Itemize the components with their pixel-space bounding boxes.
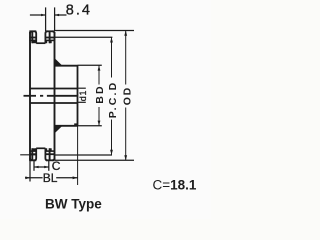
svg-text:8.4: 8.4 <box>66 2 92 18</box>
svg-text:C=18.1: C=18.1 <box>153 178 197 193</box>
left tooth pitch line <box>29 37 37 39</box>
bottom left tooth second line <box>29 150 37 152</box>
svg-text:BD: BD <box>94 84 106 104</box>
PCD dimension line upper segment with arrow <box>111 37 113 77</box>
hub top edge with extension to BD dimension <box>55 65 78 67</box>
bottom right tooth divider <box>49 148 51 160</box>
dimension 8.4 line left segment <box>30 14 46 16</box>
C dimension right extension line <box>48 161 50 171</box>
bottom notch floor between teeth <box>36 147 45 149</box>
left tooth second line <box>29 39 37 41</box>
bore bottom line <box>30 102 78 104</box>
notch floor between teeth (top) <box>36 42 45 44</box>
C dimension left extension line <box>33 161 35 171</box>
bottom pitch line with left protrusion <box>20 154 37 156</box>
hub bottom edge with extension <box>55 125 78 127</box>
tooth lower-band stubs bottom <box>32 148 35 151</box>
svg-text:d1: d1 <box>78 90 88 102</box>
weld fillet top (filled triangle) <box>55 59 61 65</box>
left tooth divider <box>31 31 33 43</box>
left tooth right edge <box>34 31 36 43</box>
plate right edge (tooth right edge, rounded top) <box>52 31 54 33</box>
dimension 8.4 line right segment <box>55 14 67 16</box>
dimension 8.4 left arrowhead <box>41 14 45 17</box>
svg-text:BL: BL <box>43 171 58 185</box>
right tooth pitch line <box>45 37 54 39</box>
BD dimension line lower segment with arrow <box>98 107 100 126</box>
bottom right tooth second line <box>45 150 54 152</box>
dimension 8.4 extension line left <box>45 7 47 31</box>
OD top extension line <box>55 30 134 32</box>
weld fillet bottom (filled triangle) <box>55 126 61 132</box>
OD dimension line upper segment with arrow <box>125 31 127 85</box>
bottom left tooth bottom edge <box>29 159 36 161</box>
plate left edge bottom corner <box>30 158 32 160</box>
PCD dimension line lower segment with arrow <box>111 120 113 156</box>
dimension 8.4 extension line right <box>54 7 56 31</box>
BD dimension line upper segment with arrow <box>98 65 100 84</box>
tooth lower-band stubs top <box>32 40 35 43</box>
bottom right tooth pitch line / PCD bottom extension <box>45 153 54 155</box>
svg-text:BW Type: BW Type <box>45 197 102 212</box>
plate left edge extension for BL <box>29 161 31 182</box>
BL dimension line left segment with outside arrow <box>25 177 43 179</box>
OD bottom extension line <box>55 159 134 161</box>
d1 dimension top bar <box>78 87 86 89</box>
right tooth second line <box>45 39 54 41</box>
plate right edge bottom corner <box>52 158 54 160</box>
dimension 8.4 right arrowhead <box>55 14 59 17</box>
bottom left tooth divider <box>31 148 33 160</box>
hub bottom inside corner blot <box>74 123 77 126</box>
right tooth left edge <box>45 31 47 43</box>
d1 dimension bottom bar <box>78 101 86 103</box>
hub right edge <box>77 65 79 126</box>
bore top line <box>30 88 78 90</box>
left tooth top edge <box>29 30 36 32</box>
hub right edge extension for BL <box>77 126 79 185</box>
bottom left tooth right edge <box>34 148 36 160</box>
plate left edge <box>30 31 32 33</box>
OD dimension line lower segment with arrow <box>125 108 127 161</box>
svg-text:OD: OD <box>121 86 133 105</box>
right tooth divider <box>49 31 51 43</box>
svg-text:P.C.D: P.C.D <box>107 81 119 119</box>
bottom right tooth left edge <box>45 148 47 160</box>
right tooth top edge <box>46 30 54 32</box>
BL dimension line right segment with arrow <box>56 177 77 179</box>
centerline (dash-dot axis) <box>24 95 37 97</box>
PCD top extension line <box>55 36 113 38</box>
C dimension line with outward arrows <box>34 166 49 168</box>
bottom right tooth bottom edge <box>46 159 54 161</box>
